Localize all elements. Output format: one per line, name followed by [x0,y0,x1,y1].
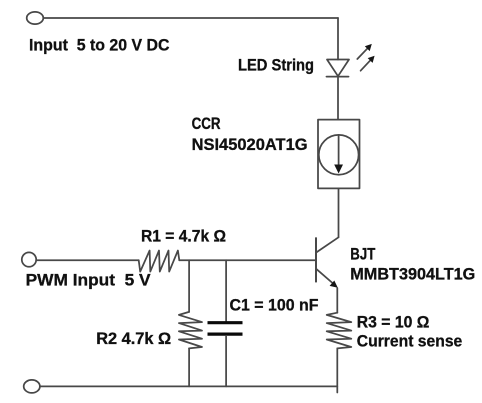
terminal J3 ground return [24,380,40,393]
svg-text:BJT: BJT [350,246,375,264]
terminal J2 PWM input [22,252,36,266]
wire to LED anode [337,18,339,60]
wire emitter to R3 [336,288,338,313]
svg-text:NSI45020AT1G: NSI45020AT1G [192,136,308,154]
capacitor C1 bottom plate [208,333,243,336]
svg-text:R2 4.7k Ω: R2 4.7k Ω [96,330,171,348]
svg-text:R1 = 4.7k Ω: R1 = 4.7k Ω [141,228,226,246]
wire bottom horizontal [40,385,337,387]
terminal J1 DC input [27,12,44,24]
wire top horizontal [43,17,338,19]
light arrow 1 [357,47,368,59]
svg-text:PWM Input 5 V: PWM Input 5 V [26,272,151,290]
wire branch to R2 [188,260,190,312]
light arrow 2 [361,59,372,70]
CCR current arrow [338,136,340,166]
svg-text:CCR: CCR [192,115,221,133]
capacitor C1 top plate [208,321,243,324]
svg-text:MMBT3904LT1G: MMBT3904LT1G [350,265,475,283]
wire PWM to R1 [36,259,139,261]
transistor Q1 emitter lead [316,269,333,283]
svg-text:C1 = 100 nF: C1 = 100 nF [230,297,319,315]
resistor R2 [179,312,202,349]
svg-text:Input 5 to 20 V DC: Input 5 to 20 V DC [29,37,170,55]
transistor Q1 base bar [315,238,317,282]
wire C1 to bottom [225,336,227,387]
resistor R3 [327,313,352,349]
svg-text:Current sense: Current sense [357,332,463,350]
CCR U1 body [318,120,360,189]
wire LED cathode to CCR [337,77,339,120]
wire CCR to collector [338,188,340,237]
LED D1 [327,60,349,77]
wire branch to C1 [225,260,227,321]
svg-text:R3 = 10 Ω: R3 = 10 Ω [357,314,430,332]
wire R3 to bottom [336,348,338,392]
wire R1 to base [179,259,316,261]
svg-text:LED String: LED String [238,56,314,74]
wire R2 to bottom [188,348,190,386]
resistor R1 [139,251,180,272]
transistor Q1 collector lead [316,237,339,252]
